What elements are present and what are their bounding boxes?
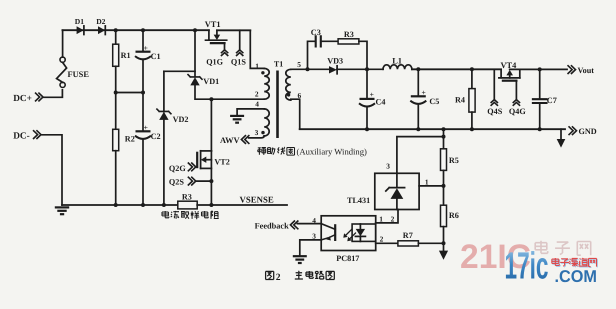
- resistor R7: [398, 231, 419, 246]
- pin Q1G: [206, 43, 228, 66]
- polarity dot: [261, 71, 264, 74]
- winding secondary: [286, 69, 291, 100]
- pin 1: [255, 62, 259, 71]
- pin 2: [391, 215, 395, 224]
- arrow: [557, 129, 566, 147]
- wire: [197, 204, 211, 206]
- pin 3: [386, 162, 390, 171]
- node Vout: [568, 65, 595, 75]
- wire: [443, 170, 445, 205]
- watermark .COM: [555, 267, 598, 286]
- junction: [365, 127, 542, 131]
- svg-text:AWV: AWV: [220, 136, 240, 145]
- junction: [193, 28, 197, 32]
- svg-text:C5: C5: [429, 97, 439, 106]
- svg-text:+: +: [144, 43, 148, 52]
- pin 3: [312, 232, 316, 241]
- resistor R6: [441, 205, 459, 226]
- svg-text:C1: C1: [151, 52, 161, 61]
- svg-text:DC+: DC+: [13, 94, 32, 104]
- regulator TL431: [347, 173, 419, 209]
- pin 4: [312, 216, 316, 225]
- junction: [141, 91, 145, 95]
- junction: [306, 67, 310, 71]
- node DC-: [13, 130, 41, 141]
- svg-text:Q4G: Q4G: [509, 107, 526, 116]
- pin 5: [297, 60, 301, 69]
- svg-text:FUSE: FUSE: [68, 70, 90, 79]
- wire: [210, 99, 212, 151]
- wire: [291, 99, 300, 129]
- wire: [308, 68, 330, 70]
- wire: [44, 90, 63, 98]
- wire: [359, 41, 367, 69]
- arrow: [439, 243, 448, 259]
- svg-text:C4: C4: [376, 98, 386, 107]
- svg-text:Feedback: Feedback: [255, 222, 289, 231]
- pin 2: [380, 234, 384, 243]
- svg-text:C2: C2: [151, 132, 161, 141]
- pin 3: [255, 128, 259, 137]
- watermark dianziwang: [535, 241, 591, 255]
- junction: [442, 241, 446, 245]
- inductor L1: [383, 57, 412, 70]
- svg-text:+: +: [144, 123, 148, 132]
- wire: [249, 136, 265, 138]
- wire: [376, 210, 398, 223]
- svg-text:2: 2: [380, 234, 384, 243]
- junction: [442, 184, 446, 188]
- svg-text:2: 2: [276, 272, 281, 283]
- svg-text:R1: R1: [121, 51, 131, 60]
- wire: [412, 68, 501, 70]
- svg-text:VD3: VD3: [327, 57, 343, 66]
- svg-text:3: 3: [386, 162, 390, 171]
- svg-text:VD1: VD1: [203, 77, 219, 86]
- svg-text:VSENSE: VSENSE: [240, 195, 274, 205]
- pin 1: [425, 177, 429, 186]
- transistor VT2: [197, 151, 230, 205]
- svg-text:R7: R7: [403, 231, 413, 240]
- wire: [443, 129, 445, 149]
- junction: [442, 135, 446, 139]
- svg-text:Q2G: Q2G: [169, 164, 186, 173]
- svg-text:DC-: DC-: [13, 132, 30, 142]
- wire: [116, 92, 143, 94]
- label auxiliary winding: [258, 147, 367, 157]
- wire: [211, 98, 264, 100]
- wire: [142, 30, 144, 51]
- optocoupler PC817: [321, 216, 376, 263]
- core: [276, 71, 279, 139]
- resistor R2: [113, 129, 135, 150]
- transformer T1: [274, 60, 283, 69]
- svg-text:17ic: 17ic: [505, 246, 549, 288]
- svg-text:T1: T1: [274, 60, 283, 69]
- ground: [230, 116, 244, 123]
- wire: [308, 41, 316, 69]
- wire: [443, 227, 445, 244]
- wire: [195, 85, 211, 99]
- watermark qudaowang: [552, 258, 598, 267]
- svg-text:Q1G: Q1G: [206, 57, 223, 66]
- resistor R3: [338, 30, 359, 44]
- polarity dot: [261, 131, 264, 134]
- wire: [321, 40, 338, 42]
- junction: [162, 203, 166, 207]
- wire: [142, 140, 144, 206]
- winding primary: [264, 68, 269, 99]
- wire: [250, 30, 264, 68]
- capacitor C2: [135, 123, 161, 141]
- junction: [365, 67, 369, 71]
- wire: [142, 59, 144, 92]
- junction: [538, 67, 542, 71]
- wire: [337, 68, 383, 70]
- svg-text:C7: C7: [547, 96, 557, 105]
- wire: [397, 137, 444, 174]
- wire: [142, 93, 144, 132]
- polarity dot: [287, 93, 290, 96]
- svg-text:Vout: Vout: [578, 66, 595, 75]
- svg-text:C3: C3: [311, 28, 321, 37]
- junction: [209, 97, 213, 101]
- svg-text:Q4S: Q4S: [487, 107, 502, 116]
- resistor R3: [178, 193, 197, 209]
- pin 4: [255, 99, 259, 108]
- node GND: [569, 126, 597, 136]
- transistor VT4: [499, 61, 567, 81]
- pin Q2S: [169, 177, 212, 187]
- svg-text:GND: GND: [579, 127, 597, 136]
- wire: [237, 109, 264, 116]
- svg-text:PC817: PC817: [336, 254, 359, 263]
- wire: [62, 30, 64, 57]
- pin Q1S: [231, 30, 246, 66]
- pin 1: [379, 215, 383, 224]
- zener VD2: [157, 109, 189, 124]
- node AWV: [220, 135, 249, 145]
- svg-text:Q2S: Q2S: [169, 177, 184, 186]
- svg-text:VD2: VD2: [173, 115, 189, 124]
- wire: [164, 70, 195, 72]
- junction: [416, 67, 420, 71]
- transistor VT1: [205, 20, 251, 43]
- wire: [115, 66, 117, 92]
- svg-text:VT2: VT2: [214, 158, 229, 167]
- wire: [42, 135, 63, 205]
- wire: [419, 185, 443, 187]
- svg-text:R5: R5: [449, 156, 459, 165]
- svg-text:1: 1: [379, 215, 383, 224]
- pin 6: [298, 91, 302, 100]
- svg-text:3: 3: [255, 128, 259, 137]
- junction: [141, 203, 145, 207]
- svg-text:D1: D1: [75, 17, 84, 26]
- svg-text:2: 2: [255, 90, 259, 99]
- pin Q4G: [509, 81, 526, 116]
- ground: [55, 207, 69, 214]
- watermark 17ic: [505, 246, 549, 288]
- wire: [291, 68, 308, 70]
- svg-text:1: 1: [425, 177, 429, 186]
- wire: [115, 151, 117, 205]
- zener VD1: [188, 75, 219, 86]
- capacitor C7: [533, 69, 557, 129]
- svg-text:1: 1: [255, 62, 259, 71]
- node DC+: [13, 93, 43, 104]
- capacitor C5: [410, 69, 439, 129]
- svg-text:R3: R3: [182, 193, 192, 202]
- junction: [141, 28, 145, 32]
- label current sense: [162, 211, 219, 219]
- net VSENSE: [211, 195, 287, 206]
- svg-text:Q1S: Q1S: [231, 57, 246, 66]
- svg-text:4: 4: [255, 99, 259, 108]
- capacitor C4: [359, 69, 386, 129]
- resistor R5: [441, 149, 459, 171]
- wire: [376, 242, 398, 244]
- wire: [163, 120, 165, 205]
- svg-text:R2: R2: [125, 135, 135, 144]
- junction: [209, 203, 213, 207]
- wire: [300, 128, 565, 130]
- junction: [470, 67, 474, 71]
- svg-text:TL431: TL431: [347, 196, 370, 205]
- svg-text:VT1: VT1: [205, 20, 221, 29]
- pin 2: [255, 90, 259, 99]
- svg-text:5: 5: [297, 60, 301, 69]
- watermark 21ic: [460, 238, 531, 276]
- pin Q4S: [487, 69, 502, 116]
- svg-text:R3: R3: [344, 30, 354, 39]
- svg-text:R4: R4: [455, 96, 465, 105]
- junction: [209, 179, 213, 183]
- diode D1: [75, 17, 84, 34]
- junction: [114, 91, 118, 95]
- junction: [114, 28, 118, 32]
- wire: [418, 242, 443, 244]
- capacitor C3: [311, 28, 321, 46]
- svg-text:+: +: [370, 90, 374, 99]
- winding auxiliary: [264, 109, 269, 136]
- resistor R1: [113, 44, 131, 66]
- caption: [266, 271, 335, 283]
- net Feedback: [255, 221, 322, 231]
- wire: [62, 204, 178, 206]
- fuse FUSE: [57, 57, 90, 87]
- wire: [300, 240, 321, 256]
- svg-text:(Auxiliary Winding): (Auxiliary Winding): [297, 147, 368, 157]
- wire: [115, 93, 117, 130]
- wire: [115, 30, 117, 44]
- junction: [114, 203, 118, 207]
- wire: [194, 30, 196, 77]
- resistor R4: [455, 69, 475, 129]
- capacitor C1: [135, 43, 161, 61]
- svg-text:R6: R6: [449, 211, 459, 220]
- pin Q2G: [169, 163, 197, 173]
- ground: [293, 256, 307, 263]
- svg-text:+: +: [422, 88, 426, 97]
- wire: [62, 29, 209, 31]
- svg-text:.COM: .COM: [555, 267, 598, 286]
- wire: [163, 71, 165, 111]
- svg-text:D2: D2: [96, 17, 105, 26]
- diode D2: [96, 17, 105, 34]
- diode VD3: [327, 57, 343, 74]
